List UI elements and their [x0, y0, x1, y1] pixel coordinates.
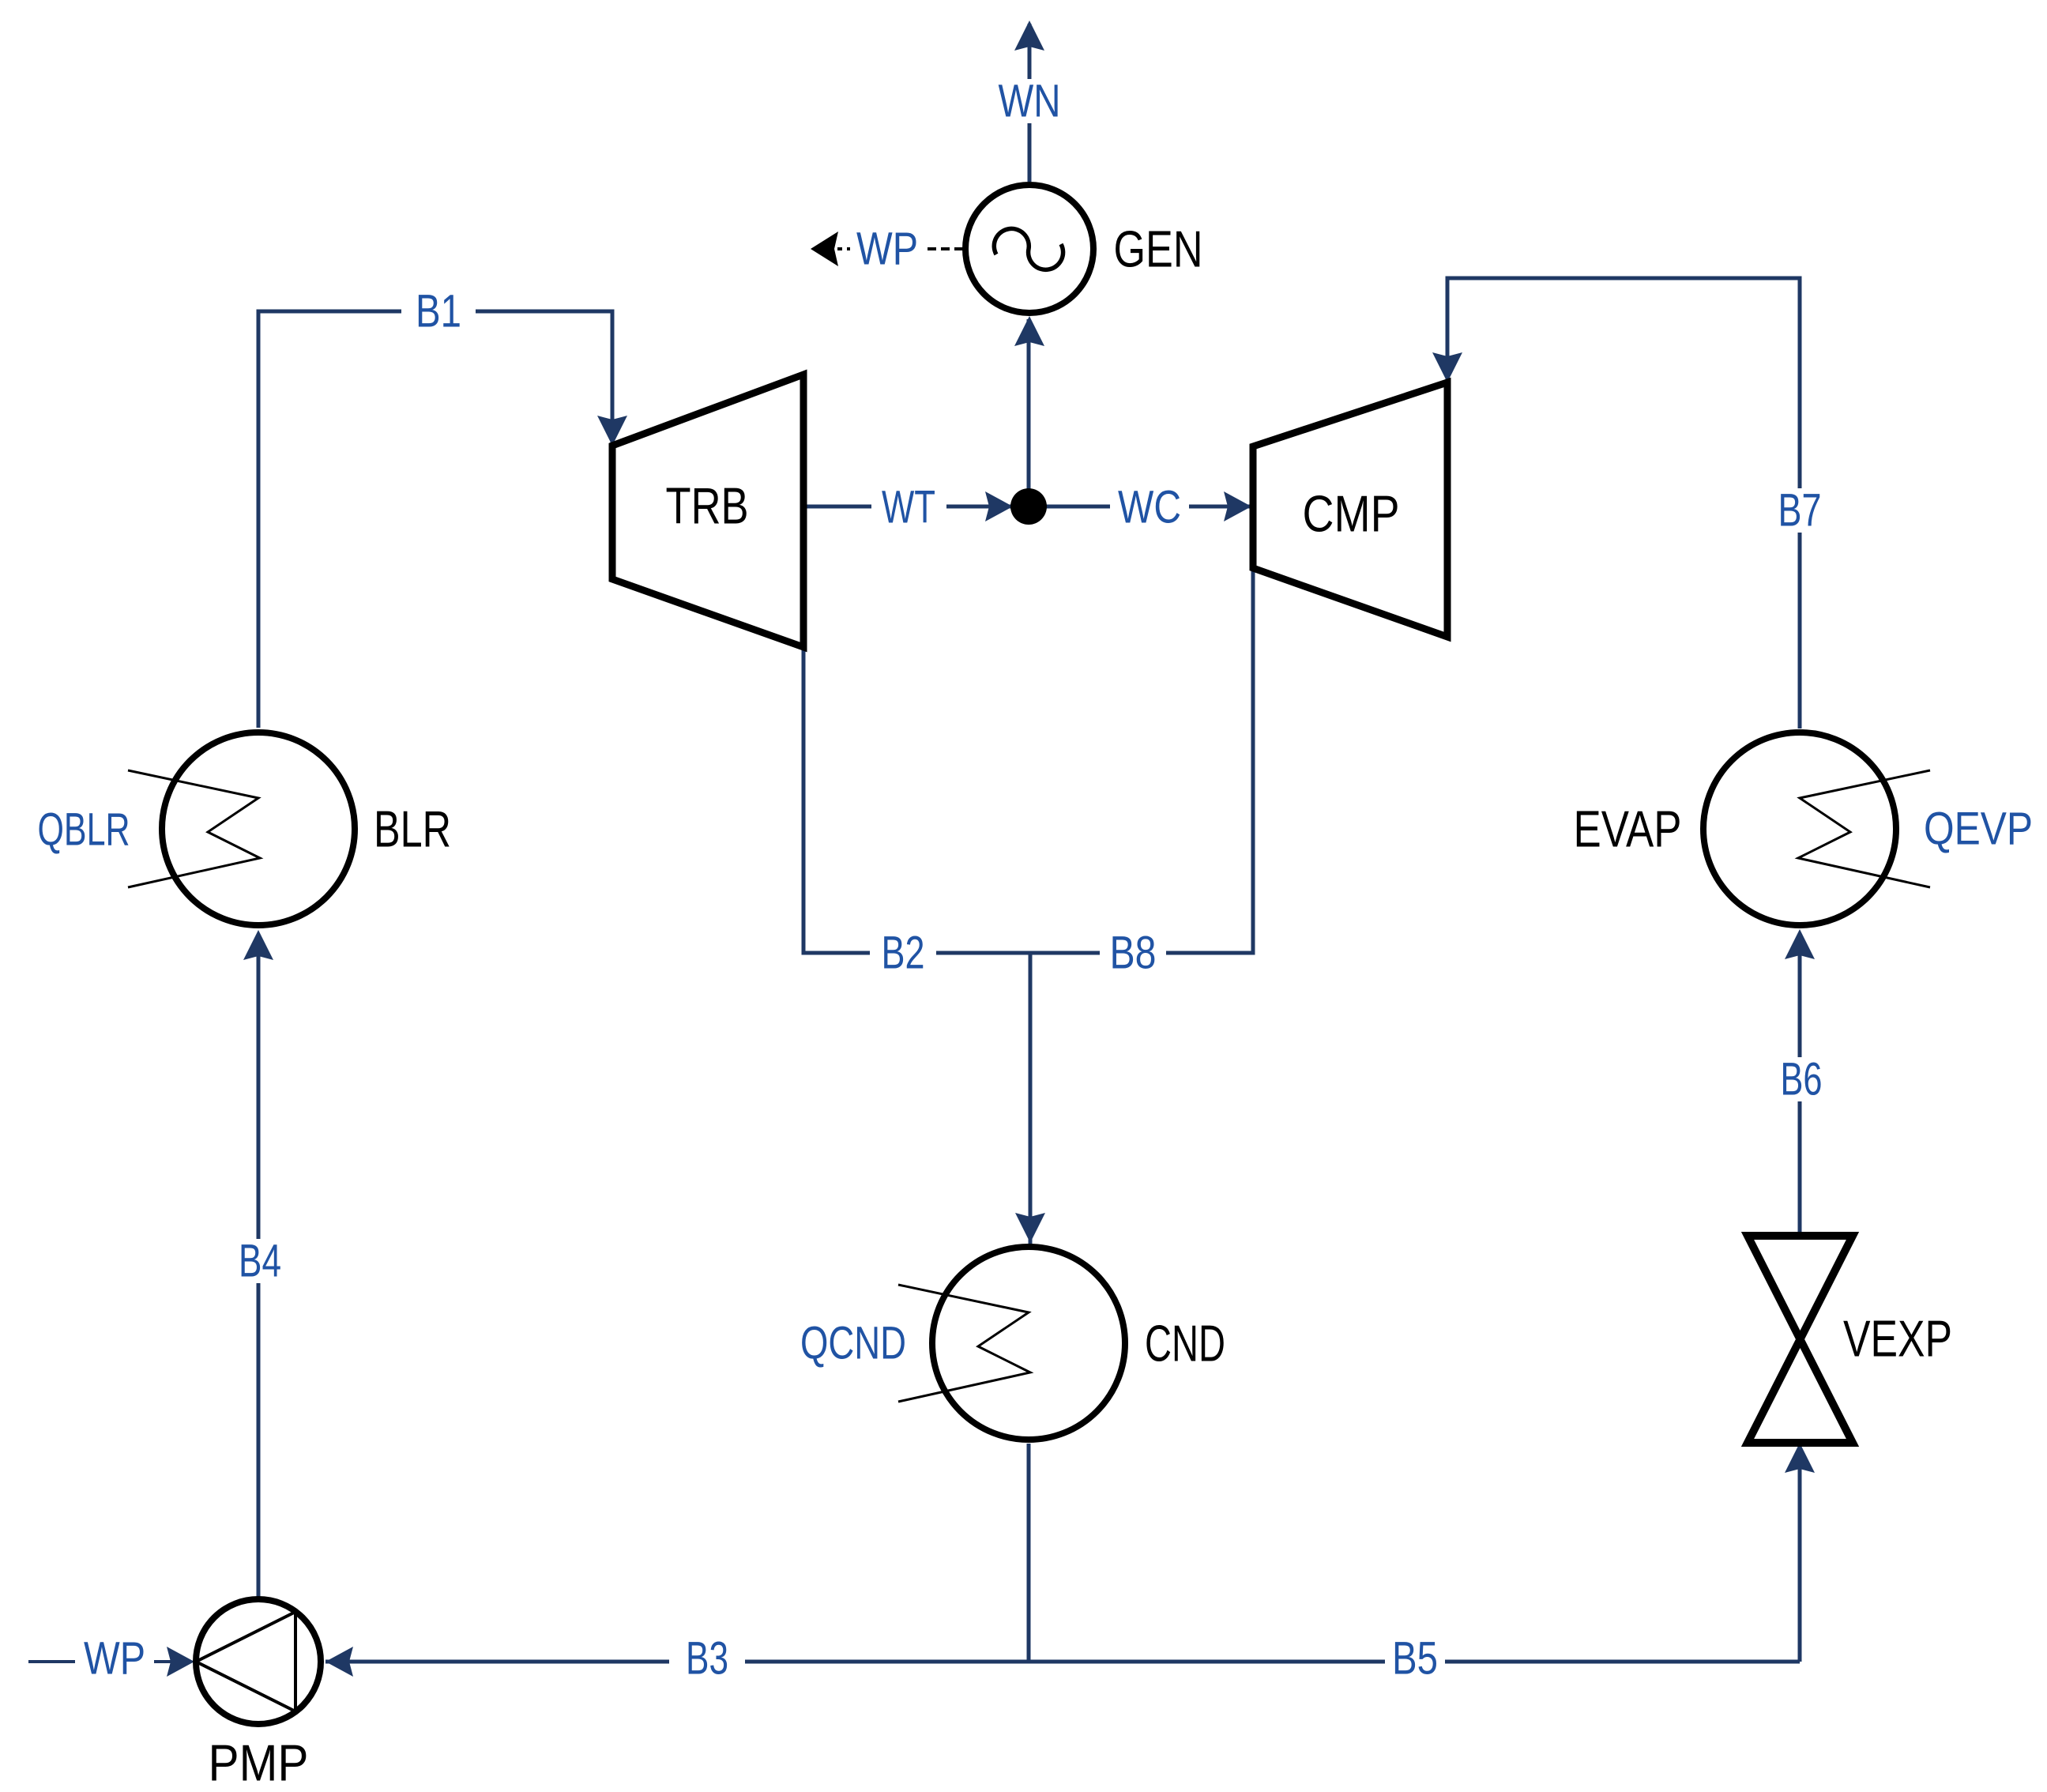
wire WC: node to CMP	[1029, 505, 1253, 509]
arrowhead into PMP left	[167, 1647, 194, 1677]
svg-text:QEVP: QEVP	[1924, 804, 2033, 855]
svg-text:QBLR: QBLR	[38, 804, 130, 856]
compressor CMP	[1253, 382, 1447, 637]
svg-text:VEXP: VEXP	[1843, 1310, 1952, 1368]
stream label B1	[401, 289, 476, 333]
svg-text:GEN: GEN	[1114, 220, 1203, 278]
stream label B2	[870, 931, 936, 975]
arrowhead into BLR bottom	[243, 930, 273, 960]
node junction dot	[1010, 488, 1047, 525]
svg-text:WC: WC	[1118, 482, 1181, 533]
wire B6: VEXP to EVAP	[1798, 934, 1802, 1236]
pump PMP	[196, 1599, 321, 1724]
arrowhead into VEXP bottom	[1785, 1443, 1815, 1473]
svg-text:BLR: BLR	[374, 800, 451, 858]
wire B2/B8: TRB bottom to CMP bottom	[803, 570, 1253, 953]
arrowhead into CND top	[1015, 1213, 1045, 1243]
wire riser B5 corner to VEXP	[1798, 1448, 1802, 1662]
generator GEN	[965, 185, 1093, 313]
stream label B6	[1763, 1057, 1839, 1101]
svg-text:B4: B4	[239, 1236, 281, 1287]
stream label WP (pump input)	[75, 1640, 154, 1684]
wire WT: TRB to node	[803, 505, 1021, 509]
svg-text:B5: B5	[1392, 1633, 1438, 1685]
wire WN arrowhead	[1014, 21, 1044, 51]
stream label B3	[669, 1640, 745, 1684]
wire WN: GEN top output	[1028, 24, 1032, 182]
PMP triangle	[196, 1612, 295, 1711]
svg-text:WP: WP	[84, 1633, 145, 1685]
stream label B8	[1100, 931, 1166, 975]
EVAP coil	[1798, 770, 1930, 887]
svg-text:CMP: CMP	[1303, 485, 1400, 543]
arrowhead into EVAP bottom	[1785, 929, 1815, 959]
WC arrowhead	[1224, 491, 1251, 521]
svg-text:EVAP: EVAP	[1574, 800, 1682, 858]
svg-text:B1: B1	[416, 286, 461, 337]
svg-text:B8: B8	[1110, 928, 1157, 979]
arrowhead into GEN bottom	[1014, 316, 1044, 346]
svg-text:WN: WN	[999, 76, 1061, 127]
stream label B4	[222, 1239, 298, 1283]
svg-text:B2: B2	[882, 928, 925, 979]
svg-text:B3: B3	[686, 1633, 728, 1685]
wire WP into PMP	[28, 1660, 190, 1663]
wire B1: BLR top to TRB inlet	[258, 311, 612, 728]
wire to CND	[1029, 953, 1033, 1246]
svg-text:B7: B7	[1778, 485, 1822, 536]
condenser CND	[932, 1247, 1125, 1440]
black arrowhead WP out	[811, 232, 838, 266]
turbine TRB	[612, 375, 803, 647]
dashed WP from GEN	[837, 247, 963, 250]
svg-text:QCND: QCND	[800, 1318, 906, 1369]
wire CND bottom to B3	[1027, 1444, 1031, 1662]
wire B4: PMP top to BLR bottom	[257, 935, 261, 1598]
svg-text:TRB: TRB	[666, 477, 749, 535]
stream label B7	[1763, 488, 1837, 533]
svg-text:B6: B6	[1781, 1054, 1823, 1105]
boiler BLR	[162, 732, 355, 925]
evaporator EVAP	[1703, 732, 1896, 925]
arrowhead into CMP top-right	[1432, 352, 1462, 382]
stream label B5	[1385, 1640, 1445, 1684]
svg-text:PMP: PMP	[209, 1734, 309, 1792]
wire B7: EVAP top to CMP inlet	[1447, 278, 1800, 728]
svg-text:CND: CND	[1145, 1315, 1225, 1372]
wire node-to-GEN	[1027, 319, 1031, 506]
arrowhead into PMP right	[325, 1647, 353, 1677]
stream label WT	[871, 485, 946, 529]
svg-text:WT: WT	[882, 482, 935, 533]
CND coil	[898, 1285, 1030, 1402]
expansion valve VEXP	[1748, 1236, 1853, 1443]
BLR coil	[128, 770, 260, 887]
stream label WP (generator output)	[850, 227, 923, 271]
wire B3/B5 bottom run	[325, 1660, 1800, 1664]
svg-text:WP: WP	[856, 224, 918, 275]
WT arrowhead	[985, 491, 1013, 521]
stream label WN	[992, 79, 1067, 123]
stream label WC	[1110, 485, 1189, 529]
wire B1 arrowhead	[597, 416, 627, 446]
GEN sine symbol	[994, 228, 1063, 269]
